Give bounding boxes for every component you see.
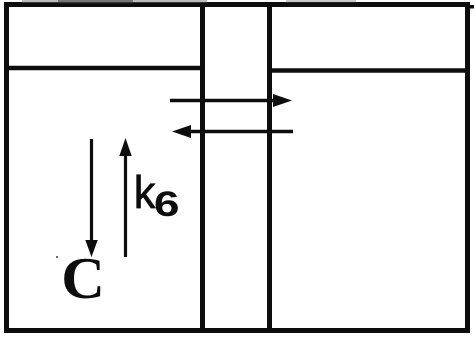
label C compartment xyxy=(64,259,100,299)
arrow up (k6) xyxy=(119,138,131,257)
column right wall xyxy=(267,4,272,330)
arrow right (left compartment to right compartment) xyxy=(170,94,292,107)
arrow down (to C) xyxy=(85,139,97,257)
scan tick at top-right corner xyxy=(469,5,474,9)
scan smudge above top border xyxy=(22,0,356,4)
arrow left (right compartment to left compartment) xyxy=(172,125,293,138)
label k6 rate constant xyxy=(137,175,178,217)
scan speck near C xyxy=(56,256,58,258)
left compartment divider xyxy=(4,66,205,71)
column left wall xyxy=(200,4,205,330)
right compartment divider xyxy=(267,68,470,73)
